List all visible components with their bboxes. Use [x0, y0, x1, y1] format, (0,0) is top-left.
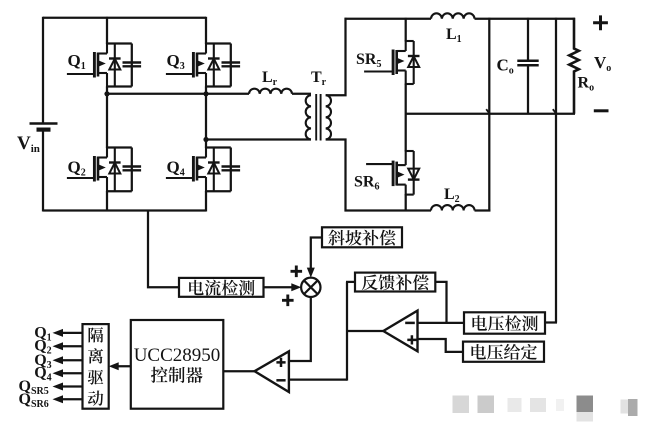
wire voltage det to sense line — [545, 321, 557, 323]
wire Lr to transformer primary — [292, 93, 311, 95]
block isolated driver box — [83, 324, 109, 409]
wire secondary bottom lead — [326, 140, 346, 212]
wire gate drive output Q1 + arrow — [53, 329, 83, 337]
label L1 — [446, 26, 462, 45]
op-amp PWM comparator — [255, 351, 289, 392]
wire SR6 to bottom rail — [405, 194, 407, 212]
wire bottom rail (primary bridge) — [43, 209, 206, 211]
label Q4 — [34, 365, 51, 384]
wire Q4 source to bottom rail — [205, 191, 207, 212]
label Vin — [17, 133, 40, 155]
text 隔离驱动 (vertical) — [88, 327, 104, 406]
text UCC28950 — [134, 345, 221, 366]
text 电压给定 — [471, 344, 536, 360]
plus sign error amp input — [407, 335, 416, 344]
wire gate drive output Q2 + arrow — [53, 342, 83, 350]
wire gate drive output QSR5 + arrow — [53, 383, 83, 391]
wire output loop left vertical — [488, 18, 490, 212]
wire Q3-Q4 leg (node B) — [205, 87, 207, 149]
minus sign comparator input — [276, 379, 285, 382]
label Q1 — [68, 51, 86, 72]
transistor SR5 — [364, 40, 419, 85]
wire secondary bottom rail — [345, 209, 432, 211]
wire summer output to comparator — [289, 297, 311, 361]
text 反馈补偿 — [362, 274, 429, 290]
resistor Ro — [569, 18, 579, 114]
label Q4 — [167, 158, 185, 179]
label Tr — [311, 69, 327, 88]
transistor Q4 — [166, 147, 240, 193]
transistor Q2 — [67, 147, 141, 193]
label Co — [497, 56, 514, 77]
watermark block 9 — [556, 399, 564, 411]
label SR5 — [356, 51, 381, 70]
block feedback compensation box — [355, 273, 435, 292]
wire Vin left rail upper — [42, 17, 44, 124]
minus sign error amp input — [405, 322, 415, 325]
capacitor Co — [517, 18, 538, 114]
block voltage detection box — [464, 312, 545, 333]
label Lr — [262, 69, 278, 88]
transformer Tr core — [316, 94, 320, 141]
node B junction — [203, 91, 208, 96]
transistor Q1 — [67, 43, 141, 88]
wire primary return to node B — [206, 138, 311, 140]
wire Q1-Q2 leg (node A) — [106, 87, 108, 149]
wire comparator minus input — [289, 378, 347, 380]
text 斜坡补偿 — [328, 230, 395, 246]
wire feedback net vertical — [346, 282, 348, 381]
watermark block 6 — [577, 412, 594, 422]
text 电流检测 — [189, 280, 254, 296]
wire error amp plus input — [418, 339, 464, 352]
label Q2 — [34, 338, 51, 357]
label Vo — [594, 53, 611, 74]
junction mid rail tick right — [553, 109, 556, 113]
wire error amp output — [347, 330, 383, 332]
junction primary return — [203, 137, 208, 142]
transistor Q3 — [166, 43, 240, 88]
text 控制器 — [151, 367, 203, 383]
watermark block 4 — [530, 398, 546, 412]
wire secondary bottom rail right — [475, 209, 491, 211]
wire Q3 leg drain — [205, 17, 207, 44]
transformer Tr secondary winding — [326, 95, 331, 139]
wire SR leg top — [405, 18, 407, 42]
wire gate drive output QSR6 + arrow — [53, 395, 83, 403]
watermark block 8 — [628, 399, 638, 416]
svg-text:UCC28950: UCC28950 — [134, 345, 221, 366]
wire error amp minus input — [418, 322, 465, 324]
wire secondary top lead — [326, 18, 346, 95]
wire Q1 leg drain — [106, 17, 108, 44]
inductor L1 — [431, 13, 475, 18]
wire current sense tap — [148, 211, 179, 288]
block UCC28950 controller box — [131, 320, 224, 409]
wire current det to summer + arrow — [264, 283, 302, 291]
label QSR5 — [19, 378, 49, 397]
watermark block 7 — [621, 400, 629, 414]
plus sign comparator input — [276, 358, 285, 367]
wire feedback comp left lead — [346, 281, 355, 283]
terminal - (Vo minus) — [594, 109, 609, 112]
label Q3 — [34, 352, 51, 371]
junction mid rail tick left — [486, 109, 489, 113]
wire gate drive output Q4 + arrow — [53, 369, 83, 377]
block voltage reference box — [463, 342, 544, 362]
wire secondary top rail left — [345, 18, 432, 20]
wire slope comp to summer + arrow — [307, 238, 322, 278]
inductor Lr — [249, 89, 292, 94]
plus sign top of summer — [291, 266, 303, 278]
watermark block 5 — [577, 396, 594, 413]
label Q2 — [68, 158, 86, 179]
wire SR5 source to mid rail — [405, 84, 407, 152]
plus sign left of summer — [282, 295, 294, 307]
label Ro — [578, 75, 595, 94]
label L2 — [444, 186, 460, 205]
op-amp error amplifier — [383, 311, 417, 352]
summing node (multiplier circle) — [301, 278, 320, 297]
node A junction — [104, 91, 109, 96]
wire feedback comp right lead — [435, 282, 446, 323]
terminal + (Vo plus) — [593, 15, 608, 30]
label Q1 — [34, 324, 51, 343]
label Q3 — [167, 51, 185, 72]
wire controller to driver + arrow — [109, 362, 131, 370]
wire comparator output to controller — [223, 370, 254, 372]
watermark block 1 — [453, 396, 470, 414]
text 电压检测 — [472, 315, 537, 331]
wire output sense vertical — [555, 18, 557, 323]
label QSR6 — [19, 391, 49, 410]
watermark block 2 — [478, 396, 495, 414]
block slope compensation box — [322, 227, 402, 247]
block current detection box — [179, 278, 264, 297]
transistor SR6 — [366, 150, 419, 196]
battery Vin — [30, 124, 58, 212]
wire top rail (primary bridge) — [43, 17, 206, 19]
inductor L2 — [431, 205, 475, 210]
wire secondary top rail right — [475, 18, 576, 20]
watermark block 3 — [508, 398, 522, 412]
wire gate drive output Q3 + arrow — [53, 356, 83, 364]
label SR6 — [354, 174, 379, 193]
wire node A to Lr — [107, 93, 249, 95]
transformer Tr primary winding — [306, 95, 311, 139]
wire Q2 source to bottom rail — [106, 191, 108, 212]
wire output mid (-) rail — [406, 113, 575, 115]
